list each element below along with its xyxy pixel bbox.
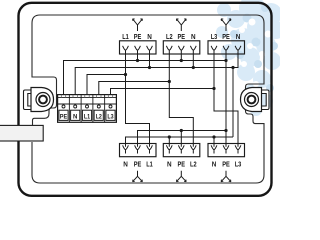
input block labels PE N L1 L2 L3 [60,113,114,120]
labels below X5: N PE L1 [123,162,153,169]
enclosure outer wall [19,3,272,196]
svg-text:L3: L3 [235,162,242,169]
output block X6 bottom-middle (N PE L2) [163,144,200,157]
feeder arrow symbol below X7 [221,171,231,182]
labels above X3: L2 PE N [166,34,196,41]
svg-text:L2: L2 [166,34,173,41]
wire: X2 PE terminal drop to PE bus [137,54,139,61]
cable gland left: body [31,88,54,112]
cable gland right: sealing ring [245,93,259,107]
wire: X6 PE stub from bottom PE bus [180,131,182,144]
feeder arrow symbol below X6 [176,171,186,182]
wire: L3 feed X4 down, jog right, into X7 L3 [214,54,238,144]
svg-text:N: N [73,113,78,120]
wire: X2 N terminal drop to N bus [149,54,151,68]
wire: X7 N stub from bottom N bus [213,137,215,144]
wire: PE bus from input PE up and right to X4 PE drop [64,61,227,95]
labels below X6: N PE L2 [167,162,197,169]
input block middle rib line [58,103,117,105]
svg-text:L3: L3 [107,113,113,120]
labels above X4: L3 PE N [211,34,241,41]
junction dots [124,59,235,139]
feeder arrow symbol above X3 [176,19,186,31]
output block X7 bottom-right (N PE L3) [208,144,245,157]
wire: bottom PE bus from X5 PE to PE riser [138,131,227,144]
svg-text:L1: L1 [84,113,90,120]
svg-text:N: N [236,34,241,41]
svg-text:PE: PE [222,162,230,169]
wire: X6 N stub from bottom N bus [168,137,170,144]
wire: N bus from input N up and right to X4 N terminal [75,54,238,95]
feeder arrow symbol above X2 [133,19,143,31]
wire: X3 N terminal drop to N bus [192,54,194,68]
incoming supply cable (light bar, left) [0,125,43,141]
feeder arrow symbol below X5 [133,171,143,182]
cable gland right: clamp bracket [261,90,270,110]
wire: L3 bus from input L3 to X4 L3 drop [111,89,215,95]
input block terminal entry ticks [61,95,112,98]
svg-text:L2: L2 [96,113,102,120]
svg-text:N: N [123,162,128,169]
enclosure inner wall with cable-gland pockets [32,15,264,183]
svg-text:N: N [191,34,196,41]
wire: L2 feed X3 down, jog right, into X6 L2 [169,54,193,144]
wire: bottom N bus from X5 N to N riser [126,137,234,144]
wire: L1 feed X2 down, jog right, into X5 L1 [126,54,150,144]
svg-text:N: N [212,162,217,169]
output block X3 top-middle (L2 PE N) [163,41,200,54]
svg-text:PE: PE [60,113,68,120]
input block cell dividers [69,95,104,123]
svg-text:N: N [167,162,172,169]
input block top rib line [58,96,117,98]
svg-text:N: N [147,34,152,41]
svg-text:PE: PE [178,162,186,169]
wire: X3 PE terminal drop to PE bus [180,54,182,61]
wire: L2 bus from input L2 to X3 L2 drop [99,82,170,95]
svg-text:PE: PE [134,162,142,169]
svg-text:PE: PE [222,34,230,41]
output block X4 top-right (L3 PE N) [208,41,245,54]
feeder arrow symbol above X4 [221,19,231,31]
output block X5 bottom-left (N PE L1) [120,144,157,157]
svg-text:L1: L1 [122,34,129,41]
svg-text:PE: PE [178,34,186,41]
input terminal block X1 (PE N L1 L2 L3) outline [58,95,117,123]
watermark (light blue blob cluster, top right) [216,0,285,116]
svg-text:PE: PE [134,34,142,41]
wire: N riser from N bus down to bottom N bus [232,68,234,138]
labels above X2: L1 PE N [122,34,152,41]
cable gland left: clamp bracket [24,90,34,110]
wires [64,54,239,144]
cable gland right: body [241,88,262,112]
labels below X7: N PE L3 [212,162,242,169]
input block screw heads [62,105,112,108]
output block X2 top-left (L1 PE N) [120,41,157,54]
cable gland left: sealing ring [36,93,50,107]
wire: PE riser X4 PE straight down into X7 PE [225,54,227,144]
svg-text:L1: L1 [146,162,153,169]
input block label boxes [59,110,115,120]
svg-text:L2: L2 [190,162,197,169]
svg-text:L3: L3 [211,34,218,41]
wire: L1 bus from input L1 to X2 L1 drop [87,75,126,95]
